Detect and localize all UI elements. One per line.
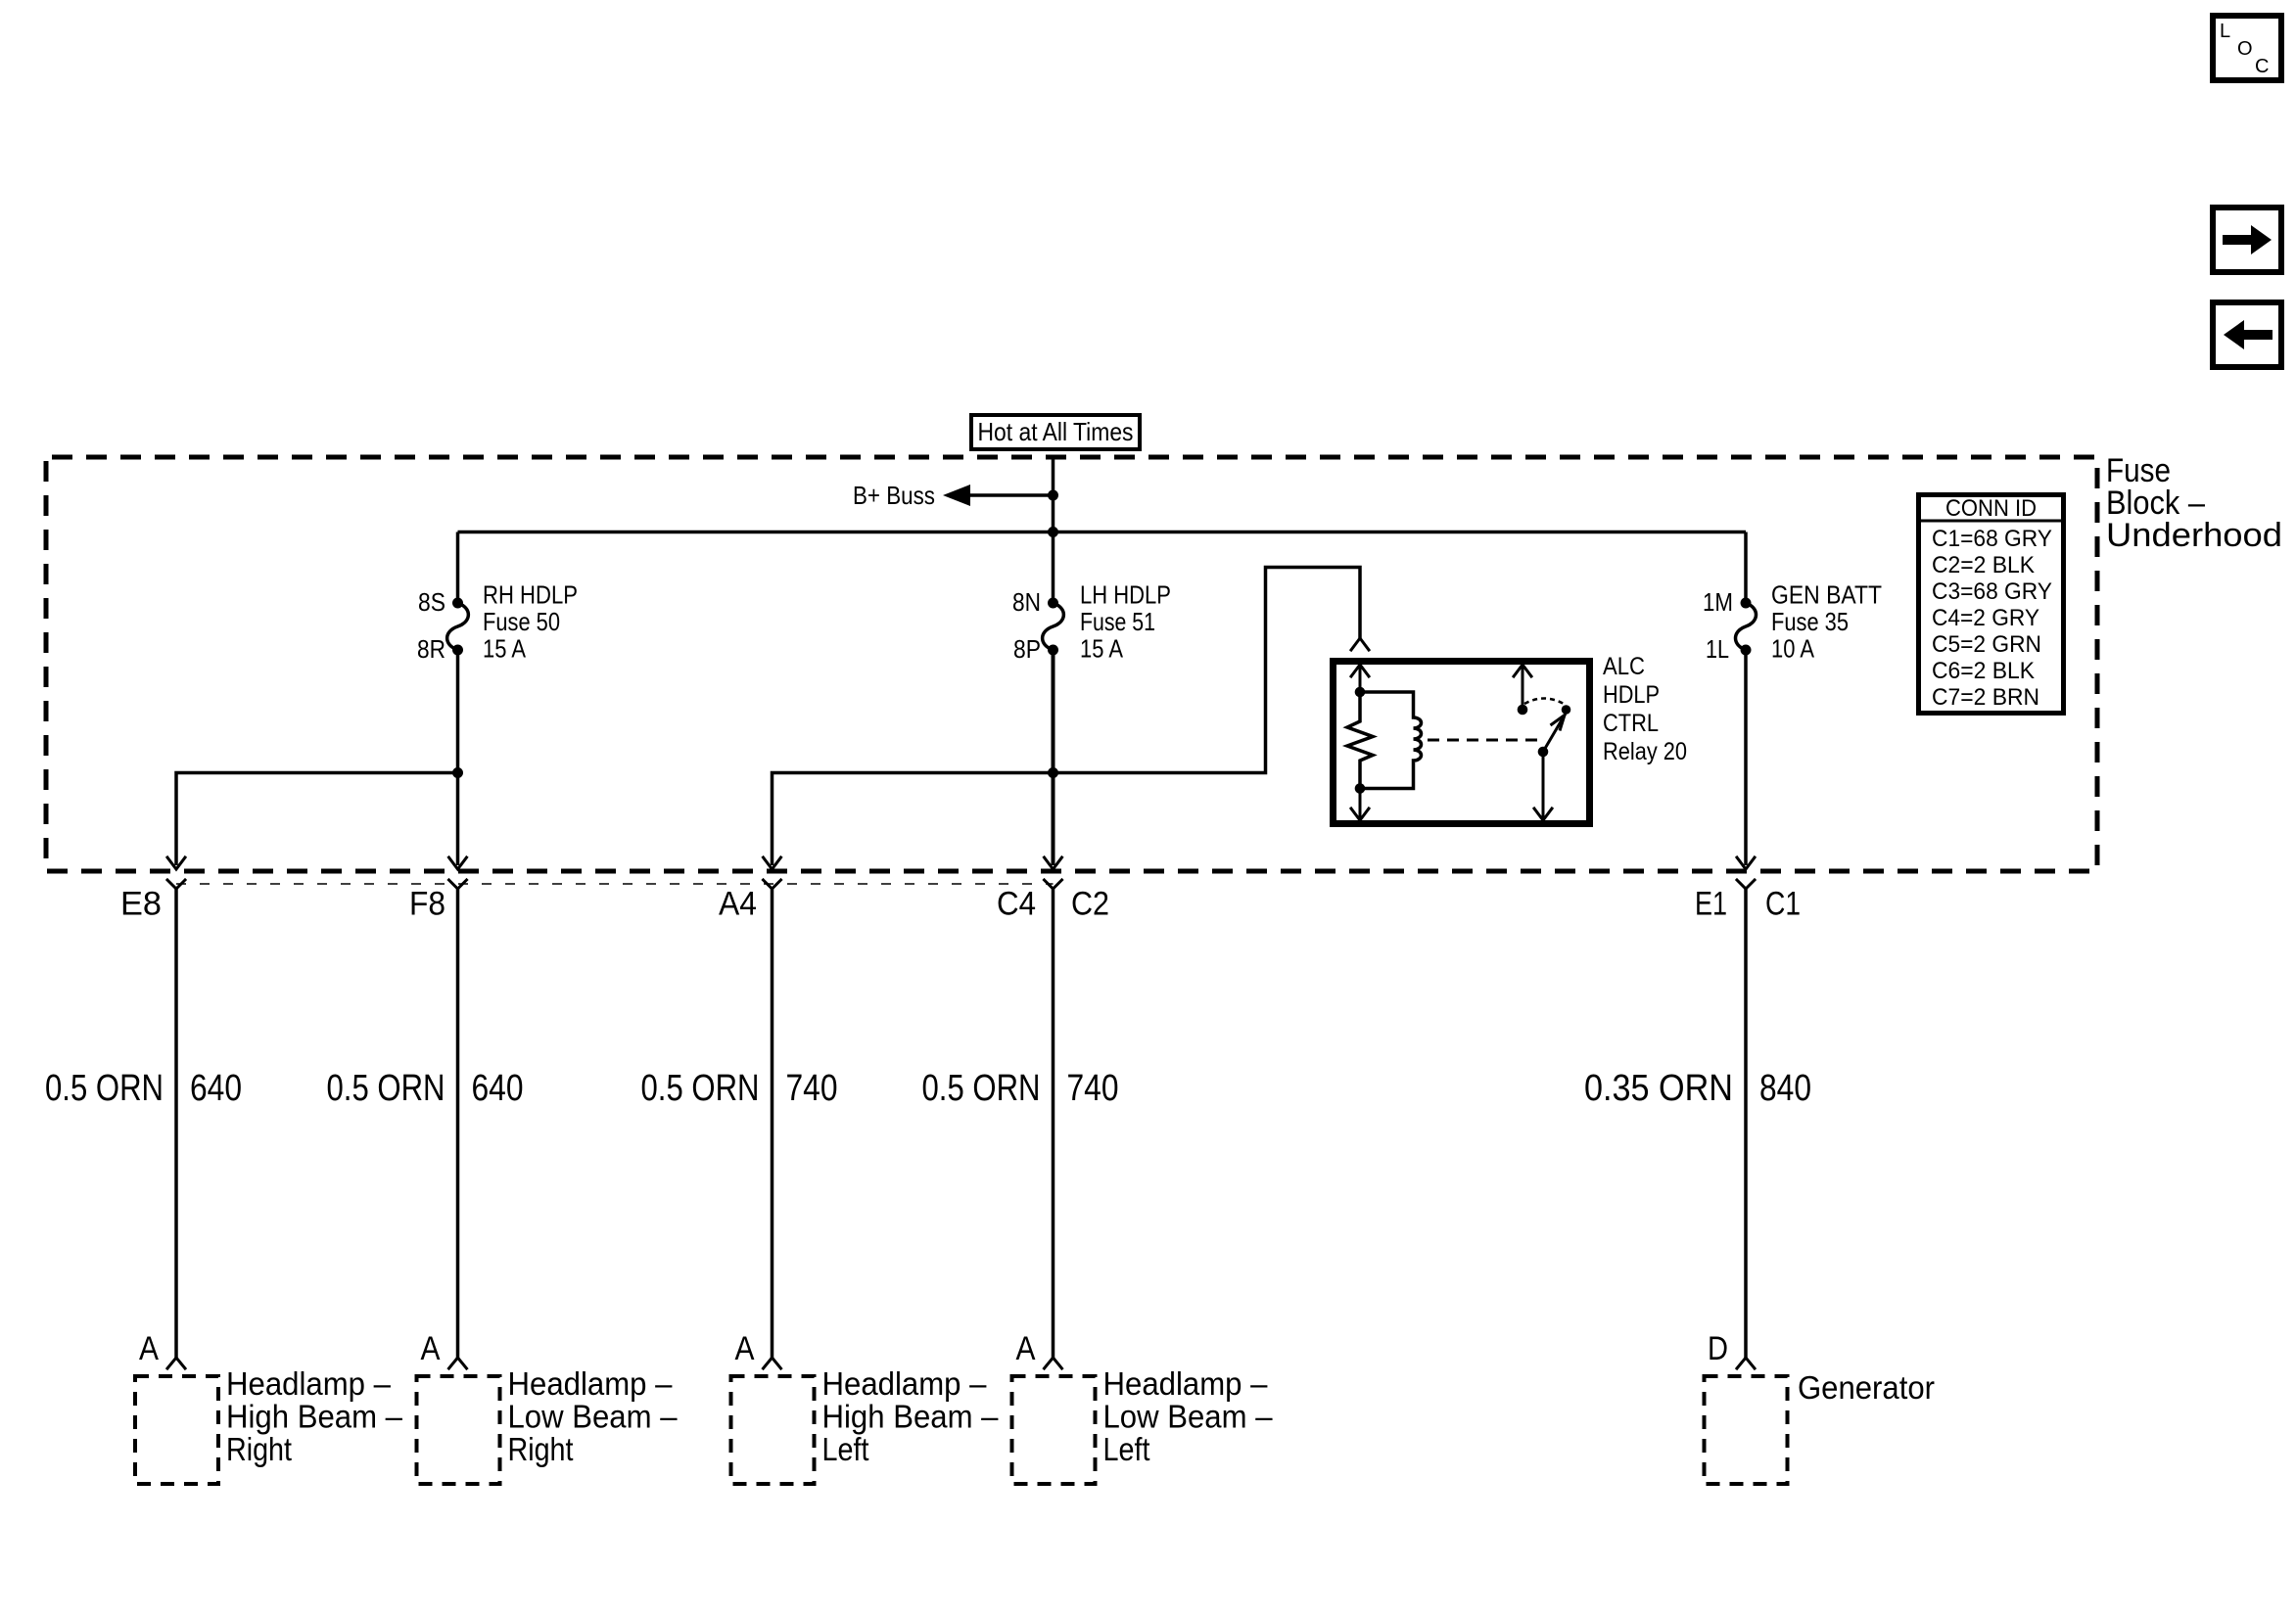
svg-text:E1: E1 <box>1695 886 1727 923</box>
svg-text:A: A <box>735 1330 755 1367</box>
svg-text:CTRL: CTRL <box>1603 710 1659 737</box>
fuse block enclosure (dashed) <box>46 457 2097 871</box>
component box: Headlamp High Beam Right <box>135 1376 218 1484</box>
arrowhead at A4 <box>764 857 781 869</box>
svg-text:0.5 ORN: 0.5 ORN <box>641 1068 760 1109</box>
wire: E1 to generator <box>1744 889 1748 1358</box>
junction: C4/A4/relay tee <box>1048 767 1058 778</box>
relay 20 ALC HDLP CTRL <box>1334 638 1590 824</box>
svg-text:Low Beam –: Low Beam – <box>1103 1399 1274 1435</box>
junction: F8/E8 tee <box>452 767 463 778</box>
svg-text:0.5 ORN: 0.5 ORN <box>922 1068 1041 1109</box>
fuse 50 RH HDLP 15 A <box>447 598 469 656</box>
svg-text:High Beam –: High Beam – <box>822 1399 1000 1435</box>
svg-text:Right: Right <box>508 1431 574 1467</box>
svg-text:ALC: ALC <box>1603 653 1645 680</box>
svg-text:C6=2 BLK: C6=2 BLK <box>1932 658 2035 684</box>
label: Headlamp Low Beam Left <box>1103 1365 1274 1467</box>
svg-text:C1: C1 <box>1765 886 1801 923</box>
svg-text:740: 740 <box>786 1068 838 1109</box>
arrowhead at E8 <box>167 857 185 869</box>
svg-text:C7=2 BRN: C7=2 BRN <box>1932 684 2039 711</box>
label: Headlamp High Beam Right <box>226 1365 403 1467</box>
component box: Headlamp High Beam Left <box>731 1376 815 1484</box>
arrowhead at E1 <box>1737 857 1755 869</box>
component box: Headlamp Low Beam Right <box>417 1376 500 1484</box>
label: GEN BATT Fuse 35 10 A <box>1771 580 1882 664</box>
junction: common <box>1538 747 1549 758</box>
wire label 0.5 ORN 640 (F8) <box>327 1068 524 1109</box>
page icon LOC box <box>2213 16 2281 80</box>
connector Y at C4 <box>1045 880 1062 899</box>
svg-text:640: 640 <box>472 1068 524 1109</box>
svg-text:Hot at All Times: Hot at All Times <box>978 417 1134 446</box>
svg-text:D: D <box>1708 1330 1728 1367</box>
wire: main feed bus <box>458 531 1747 534</box>
svg-text:O: O <box>2237 38 2253 60</box>
wire label 0.35 ORN 840 (E1) <box>1584 1068 1811 1109</box>
svg-text:Left: Left <box>1103 1431 1150 1467</box>
relay pin 85 down arrow <box>1359 789 1362 819</box>
connector C2 interface (thin dashed) <box>176 883 1054 885</box>
svg-text:0.5 ORN: 0.5 ORN <box>45 1068 164 1109</box>
svg-text:Headlamp –: Headlamp – <box>508 1365 674 1402</box>
svg-text:CONN ID: CONN ID <box>1945 495 2037 522</box>
svg-text:640: 640 <box>190 1068 242 1109</box>
relay pin 86 up arrow <box>1359 666 1362 692</box>
svg-text:15 A: 15 A <box>483 634 527 664</box>
connector Y at A4 <box>764 880 781 899</box>
connector chevron at headlamp low beam right <box>449 1358 467 1368</box>
svg-text:High Beam –: High Beam – <box>226 1399 403 1435</box>
svg-text:A: A <box>1016 1330 1036 1367</box>
arrowhead at C4 <box>1045 857 1062 869</box>
svg-text:C2: C2 <box>1071 886 1109 923</box>
relay pin connector chevron <box>1351 638 1369 650</box>
svg-text:8P: 8P <box>1013 634 1041 664</box>
wire: fuse 51 output to C4 <box>1052 650 1055 865</box>
svg-text:C4: C4 <box>997 886 1036 923</box>
connector chevron at headlamp high beam left <box>764 1358 781 1368</box>
svg-text:0.35 ORN: 0.35 ORN <box>1584 1068 1733 1109</box>
svg-text:10 A: 10 A <box>1771 634 1815 664</box>
svg-text:8R: 8R <box>417 634 445 664</box>
connector chevron at headlamp high beam right <box>167 1358 185 1368</box>
component box: Headlamp Low Beam Left <box>1012 1376 1096 1484</box>
connector Y at E8 <box>167 880 185 899</box>
connector Y at F8 <box>449 880 467 899</box>
junction: trunk/bus <box>1048 527 1058 537</box>
svg-text:Fuse 35: Fuse 35 <box>1771 607 1849 636</box>
power label box: Hot at All Times <box>971 415 1140 449</box>
wire: relay coil feed <box>1054 568 1361 773</box>
junction: coil top <box>1355 687 1366 698</box>
svg-text:C2=2 BLK: C2=2 BLK <box>1932 552 2035 578</box>
svg-text:A: A <box>139 1330 159 1367</box>
wire: C4 to headlamp low beam left <box>1052 889 1055 1358</box>
component box: Generator <box>1705 1376 1788 1484</box>
svg-text:740: 740 <box>1067 1068 1119 1109</box>
svg-text:Fuse 51: Fuse 51 <box>1080 607 1155 636</box>
wire: E8 branch <box>176 773 458 866</box>
dashed throw arc <box>1524 699 1564 705</box>
resistor (coil suppression) <box>1347 692 1373 789</box>
svg-text:Right: Right <box>226 1431 292 1467</box>
svg-text:Fuse 50: Fuse 50 <box>483 607 560 636</box>
svg-text:15 A: 15 A <box>1080 634 1124 664</box>
svg-text:Left: Left <box>822 1431 869 1467</box>
svg-text:L: L <box>2220 21 2230 42</box>
wire: bus drop to fuse 35 <box>1744 532 1748 604</box>
page icon previous-page arrow <box>2213 302 2281 367</box>
svg-text:Headlamp –: Headlamp – <box>822 1365 988 1402</box>
connector chevron at headlamp low beam left <box>1045 1358 1062 1368</box>
wire label 0.5 ORN 640 (E8) <box>45 1068 242 1109</box>
label: LH HDLP Fuse 51 15 A <box>1080 580 1171 664</box>
wire: fuse 35 output to E1 <box>1744 650 1748 865</box>
relay pin 87a up arrow <box>1522 666 1524 710</box>
svg-text:Relay 20: Relay 20 <box>1603 738 1687 765</box>
svg-text:Low Beam –: Low Beam – <box>508 1399 679 1435</box>
svg-text:GEN BATT: GEN BATT <box>1771 580 1882 610</box>
arrowhead at F8 <box>449 857 467 869</box>
label: Headlamp High Beam Left <box>822 1365 1000 1467</box>
connector chevron at generator <box>1737 1358 1755 1368</box>
svg-text:C5=2 GRN: C5=2 GRN <box>1932 631 2041 658</box>
switch arm <box>1543 716 1565 753</box>
label: Headlamp Low Beam Right <box>508 1365 679 1467</box>
svg-text:8S: 8S <box>418 587 445 617</box>
label: RH HDLP Fuse 50 15 A <box>483 580 578 664</box>
wire label 0.5 ORN 740 (C4) <box>922 1068 1119 1109</box>
fuse 35 GEN BATT 10 A <box>1736 598 1757 656</box>
svg-text:RH HDLP: RH HDLP <box>483 580 578 610</box>
connector Y at E1 <box>1737 880 1755 899</box>
svg-text:B+ Buss: B+ Buss <box>853 481 935 510</box>
wire: A4 to headlamp high beam left <box>771 889 774 1358</box>
svg-text:Headlamp –: Headlamp – <box>1103 1365 1269 1402</box>
svg-text:0.5 ORN: 0.5 ORN <box>327 1068 445 1109</box>
svg-text:Headlamp –: Headlamp – <box>226 1365 392 1402</box>
label: ALC HDLP CTRL Relay 20 <box>1603 653 1687 765</box>
contact NC dot <box>1518 705 1528 716</box>
wire: A4 branch <box>773 773 1054 866</box>
svg-text:LH HDLP: LH HDLP <box>1080 580 1171 610</box>
relay pin 30 down arrow <box>1542 752 1545 818</box>
svg-text:840: 840 <box>1759 1068 1811 1109</box>
svg-text:8N: 8N <box>1012 587 1041 617</box>
svg-text:C: C <box>2255 56 2269 77</box>
coil winding <box>1360 692 1422 789</box>
wire: F8 to headlamp low beam right <box>456 889 460 1358</box>
svg-text:A4: A4 <box>719 886 757 923</box>
label: Fuse Block - Underhood <box>2106 452 2282 554</box>
wire label 0.5 ORN 740 (A4) <box>641 1068 838 1109</box>
svg-text:C1=68 GRY: C1=68 GRY <box>1932 526 2052 552</box>
svg-text:1M: 1M <box>1703 587 1733 617</box>
contact NO dot <box>1562 705 1571 715</box>
svg-text:1L: 1L <box>1706 634 1729 664</box>
junction: coil bottom <box>1355 783 1366 794</box>
wire: fuse 50 output to F8 <box>456 650 460 865</box>
relay box <box>1334 662 1590 824</box>
svg-text:C3=68 GRY: C3=68 GRY <box>1932 578 2052 605</box>
svg-text:Generator: Generator <box>1798 1369 1935 1406</box>
relay armature dashed link <box>1428 739 1538 742</box>
svg-text:E8: E8 <box>120 886 162 923</box>
svg-text:A: A <box>421 1330 441 1367</box>
svg-text:Underhood: Underhood <box>2106 517 2282 554</box>
CONN ID table <box>1919 495 2064 714</box>
fuse 51 LH HDLP 15 A <box>1043 598 1064 656</box>
svg-text:HDLP: HDLP <box>1603 681 1660 709</box>
page icon next-page arrow <box>2213 208 2281 272</box>
wire: battery trunk from enclosure top <box>1052 459 1055 603</box>
wire: E8 to headlamp high beam right <box>174 889 178 1358</box>
svg-text:C4=2 GRY: C4=2 GRY <box>1932 605 2039 631</box>
wire: bus drop to fuse 50 <box>456 532 460 604</box>
svg-text:F8: F8 <box>409 886 445 923</box>
node: B+ Buss tap <box>853 481 1058 510</box>
